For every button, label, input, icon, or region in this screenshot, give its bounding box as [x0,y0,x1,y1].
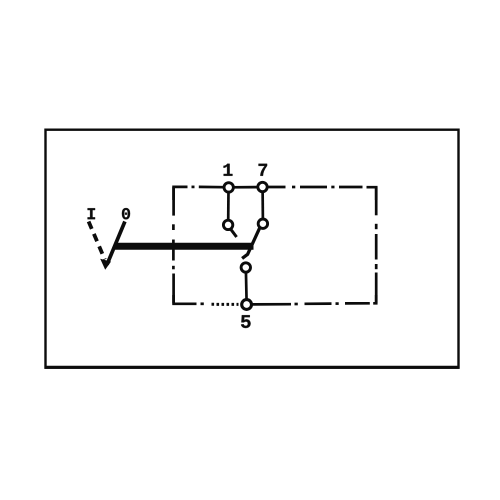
switch housing enclosure, bottom edge [174,295,377,304]
wire terminal 1 to contact A [227,190,230,222]
label I (lever position I) [88,208,95,219]
terminal 7 circle [258,182,267,191]
label 7 (terminal 7) [259,164,268,176]
wire terminal 7 to contact B [261,190,264,221]
lever arm, position 0 (solid) [107,222,125,265]
lever pivot wedge [100,259,111,270]
label 0 (lever position 0) [122,208,130,219]
contact C circle [241,263,250,272]
actuator bar (thick movable bridge) [114,243,253,250]
switch housing enclosure (dash-dot box), top edge [174,187,377,200]
switch body outline [45,130,459,368]
contact A circle [223,220,232,229]
terminal 1 circle [224,183,233,192]
label 1 (terminal 1) [224,164,233,176]
contact A stub [231,229,237,237]
switch housing enclosure, right edge [375,187,378,303]
terminal 5 circle [242,300,252,310]
contact B circle [258,219,267,228]
switch housing enclosure, left edge [172,187,175,304]
label 5 (terminal 5) [241,315,251,328]
moving contact arm from contact B (diagonal with hook) [242,228,260,259]
wire contact C to terminal 5 [245,270,248,302]
lever arm, position I (dashed) [89,222,105,260]
